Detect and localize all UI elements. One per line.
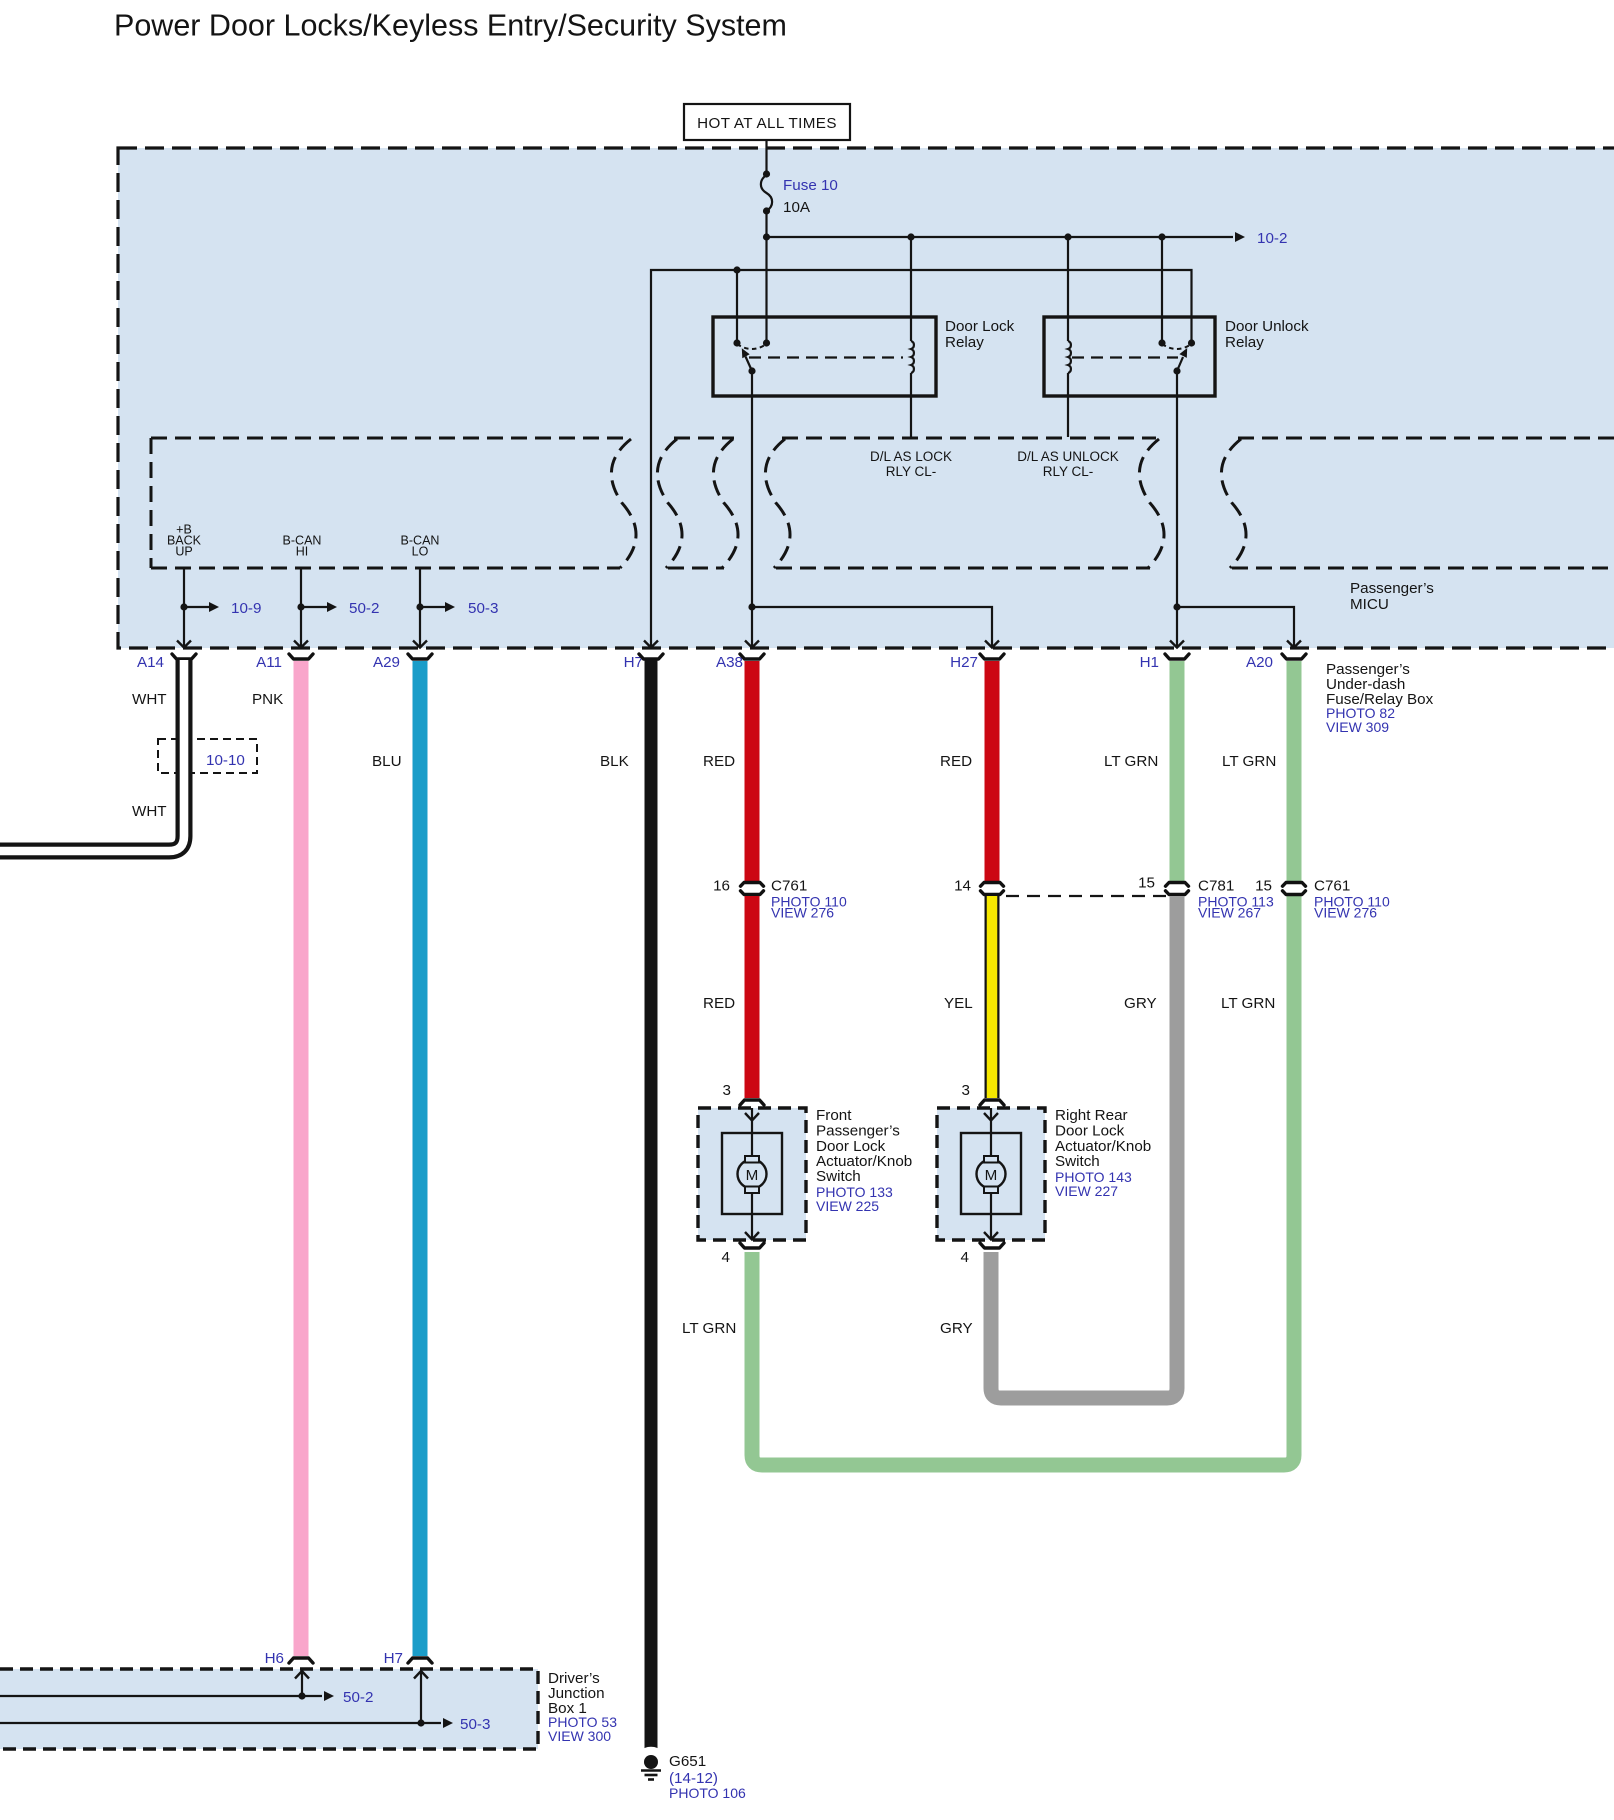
MICU inner connector box segment B (break) bbox=[657, 438, 738, 568]
node H1 branch bbox=[1173, 603, 1180, 610]
svg-text:RED: RED bbox=[703, 753, 735, 770]
svg-text:HOT AT ALL TIMES: HOT AT ALL TIMES bbox=[697, 115, 837, 132]
Passenger's MICU label bbox=[1350, 580, 1434, 613]
node unlock coil feed bbox=[1064, 233, 1071, 240]
label right rear actuator bbox=[1055, 1107, 1151, 1199]
wire RED from A38 to C761 bbox=[745, 661, 760, 881]
wire LT GRN from H1 to C781 bbox=[1170, 661, 1185, 881]
MICU inner connector box segment D bbox=[1221, 438, 1614, 568]
wire 50-2 inside junction box bbox=[0, 1671, 373, 1706]
label driver's junction box bbox=[548, 1670, 617, 1744]
pin B-CAN LO bbox=[401, 534, 440, 559]
unlock relay blade bbox=[1173, 348, 1187, 375]
svg-text:50-2: 50-2 bbox=[343, 1689, 373, 1706]
svg-text:Relay: Relay bbox=[1225, 334, 1264, 351]
wire LT GRN from A20 to front actuator pin 4 bbox=[1287, 661, 1302, 881]
wire PNK from A11 to H6 bbox=[294, 661, 309, 1656]
connector pin H27 bbox=[950, 654, 1004, 671]
wire feed to lock relay right contact bbox=[765, 237, 767, 343]
svg-text:Door Unlock: Door Unlock bbox=[1225, 318, 1309, 335]
wire WHT from A14 bbox=[0, 660, 184, 851]
svg-text:Switch: Switch bbox=[816, 1168, 861, 1185]
dashed link C761-14 to C781-15 bbox=[1006, 895, 1167, 897]
svg-text:15: 15 bbox=[1138, 875, 1155, 892]
connector pin A11 bbox=[256, 654, 313, 671]
wire B-CAN HI to A11 bbox=[300, 568, 302, 646]
wire common bus y270 from H7 bbox=[651, 270, 1192, 646]
connector C761 pin 16 bbox=[713, 878, 847, 921]
wire bus to 10-2 bbox=[767, 232, 1246, 242]
svg-text:M: M bbox=[746, 1167, 759, 1184]
node 50-3 branch bbox=[416, 603, 423, 610]
svg-text:H1: H1 bbox=[1140, 654, 1159, 671]
node A38 branch bbox=[748, 603, 755, 610]
svg-text:Power Door Locks/Keyless Entry: Power Door Locks/Keyless Entry/Security … bbox=[114, 9, 787, 43]
node 10-9 branch bbox=[180, 603, 187, 610]
svg-text:Passenger’s: Passenger’s bbox=[816, 1123, 900, 1140]
node lock contact feed bbox=[733, 266, 740, 273]
svg-text:4: 4 bbox=[722, 1249, 730, 1266]
svg-text:Right Rear: Right Rear bbox=[1055, 1107, 1128, 1124]
svg-text:Door Lock: Door Lock bbox=[945, 318, 1015, 335]
svg-text:D/L AS LOCK: D/L AS LOCK bbox=[870, 449, 952, 464]
svg-text:C761: C761 bbox=[771, 878, 807, 895]
svg-text:10-2: 10-2 bbox=[1257, 230, 1287, 247]
svg-text:Fuse 10: Fuse 10 bbox=[783, 177, 838, 194]
svg-text:LT GRN: LT GRN bbox=[1222, 753, 1276, 770]
svg-text:Switch: Switch bbox=[1055, 1153, 1100, 1170]
svg-text:RLY CL-: RLY CL- bbox=[1043, 464, 1094, 479]
wire RED C761 to front actuator pin 3 bbox=[745, 896, 760, 1098]
svg-text:LT GRN: LT GRN bbox=[1221, 995, 1275, 1012]
wire feed to lock relay left contact bbox=[736, 270, 738, 343]
right rear door lock actuator bbox=[937, 1108, 1045, 1240]
pin 4 right rear actuator bbox=[961, 1243, 1004, 1266]
svg-text:GRY: GRY bbox=[940, 1320, 973, 1337]
relay Door Unlock Relay bbox=[1044, 317, 1309, 396]
connector pin H1 bbox=[1140, 654, 1189, 671]
svg-text:M: M bbox=[985, 1167, 998, 1184]
connector C781 pin 15 bbox=[1138, 875, 1274, 921]
front passenger's door lock actuator bbox=[698, 1108, 806, 1240]
svg-text:MICU: MICU bbox=[1350, 596, 1389, 613]
svg-text:4: 4 bbox=[961, 1249, 969, 1266]
wire branch to A20 bbox=[1177, 607, 1294, 646]
svg-text:G651: G651 bbox=[669, 1753, 706, 1770]
svg-text:UP: UP bbox=[175, 545, 192, 559]
svg-text:Relay: Relay bbox=[945, 334, 984, 351]
arrow to 50-2 bbox=[301, 600, 379, 617]
MICU inner connector box segment C bbox=[765, 438, 1164, 568]
wire unlock relay output to H1 bbox=[1176, 371, 1178, 646]
svg-text:VIEW 300: VIEW 300 bbox=[548, 1728, 611, 1744]
svg-text:A29: A29 bbox=[373, 654, 400, 671]
connector pin A20 bbox=[1246, 654, 1306, 671]
wire BLU from A29 to H7 bbox=[413, 661, 428, 1656]
wire branch to H27 bbox=[752, 607, 992, 646]
svg-text:H7: H7 bbox=[384, 1650, 403, 1667]
svg-text:50-3: 50-3 bbox=[468, 600, 498, 617]
svg-text:C761: C761 bbox=[1314, 878, 1350, 895]
pin D/L AS LOCK RLY CL- bbox=[870, 449, 952, 479]
svg-text:14: 14 bbox=[954, 878, 971, 895]
svg-text:GRY: GRY bbox=[1124, 995, 1157, 1012]
lock relay link (dashed) bbox=[749, 356, 903, 358]
arrowheads at MICU bottom edge bbox=[177, 641, 1301, 648]
svg-text:10-9: 10-9 bbox=[231, 600, 261, 617]
connector pin A29 bbox=[373, 654, 432, 671]
driver's junction box 1 bbox=[0, 1669, 538, 1749]
svg-text:VIEW 227: VIEW 227 bbox=[1055, 1183, 1118, 1199]
connector C761 pin 15 (A20) bbox=[1255, 878, 1390, 921]
arrow to 50-3 bbox=[420, 600, 498, 617]
pin B-CAN HI bbox=[283, 534, 322, 559]
connector pin A38 bbox=[716, 654, 764, 671]
svg-text:A38: A38 bbox=[716, 654, 743, 671]
svg-text:10A: 10A bbox=[783, 199, 811, 216]
svg-text:WHT: WHT bbox=[132, 803, 167, 820]
svg-text:VIEW 309: VIEW 309 bbox=[1326, 719, 1389, 735]
wire lock relay output to A38 bbox=[751, 371, 753, 646]
connector pin A14 bbox=[137, 654, 196, 671]
lock relay blade bbox=[742, 348, 756, 374]
wire feed to unlock relay left contact bbox=[1161, 237, 1163, 343]
svg-text:3: 3 bbox=[962, 1082, 970, 1099]
svg-text:A20: A20 bbox=[1246, 654, 1273, 671]
node lock coil feed bbox=[907, 233, 914, 240]
svg-text:YEL: YEL bbox=[944, 995, 973, 1012]
Passenger's MICU box bbox=[118, 148, 1614, 648]
svg-text:VIEW 267: VIEW 267 bbox=[1198, 905, 1261, 921]
svg-text:PNK: PNK bbox=[252, 691, 283, 708]
pin +B BACK UP bbox=[167, 523, 202, 559]
node unlock contact feed bbox=[1158, 233, 1165, 240]
svg-text:Front: Front bbox=[816, 1107, 852, 1124]
label front actuator bbox=[816, 1107, 912, 1214]
svg-text:BLU: BLU bbox=[372, 753, 402, 770]
wire BLK from H7 to G651 bbox=[645, 660, 658, 1750]
HOT AT ALL TIMES label bbox=[684, 104, 850, 140]
wire 50-3 inside junction box bbox=[0, 1671, 490, 1733]
pin D/L AS UNLOCK RLY CL- bbox=[1017, 449, 1119, 479]
unlock relay link (dashed) bbox=[1072, 356, 1178, 358]
svg-text:Door Lock: Door Lock bbox=[1055, 1123, 1125, 1140]
svg-text:50-3: 50-3 bbox=[460, 1716, 490, 1733]
svg-text:D/L AS UNLOCK: D/L AS UNLOCK bbox=[1017, 449, 1119, 464]
svg-text:10-10: 10-10 bbox=[206, 752, 245, 769]
svg-text:VIEW 225: VIEW 225 bbox=[816, 1198, 879, 1214]
ground G651 bbox=[641, 1747, 746, 1801]
node fuse output bbox=[763, 233, 770, 240]
pin 4 front actuator bbox=[722, 1243, 764, 1266]
wire YEL C761 to right rear actuator pin 3 bbox=[985, 896, 1000, 1098]
connector C761 pin 14 bbox=[954, 878, 1003, 895]
svg-text:3: 3 bbox=[723, 1082, 731, 1099]
connector pin H7 (junction box) bbox=[384, 1650, 432, 1667]
MICU inner connector box segment A bbox=[151, 438, 636, 568]
svg-text:LO: LO bbox=[412, 545, 429, 559]
svg-text:16: 16 bbox=[713, 878, 730, 895]
wire RED from H27 to C761 bbox=[985, 661, 1000, 881]
unlock relay contacts bbox=[1158, 339, 1195, 349]
svg-text:VIEW 276: VIEW 276 bbox=[771, 905, 834, 921]
wire GRY C781 to right rear actuator pin 4 bbox=[991, 896, 1177, 1398]
svg-text:50-2: 50-2 bbox=[349, 600, 379, 617]
unlock relay coil bbox=[1068, 237, 1071, 437]
wire +B BACK UP to A14 bbox=[183, 568, 185, 646]
label Passenger's Under-dash Fuse/Relay Box bbox=[1326, 661, 1434, 735]
pin 3 front actuator bbox=[723, 1082, 764, 1105]
svg-text:H27: H27 bbox=[950, 654, 978, 671]
fuse Fuse 10 10A bbox=[761, 170, 838, 237]
svg-text:15: 15 bbox=[1255, 878, 1272, 895]
svg-text:RED: RED bbox=[940, 753, 972, 770]
svg-text:A11: A11 bbox=[256, 654, 282, 671]
svg-text:C781: C781 bbox=[1198, 878, 1234, 895]
wire from HOT AT ALL TIMES to fuse bbox=[765, 140, 767, 176]
arrow to 10-9 bbox=[184, 600, 261, 617]
svg-text:LT GRN: LT GRN bbox=[682, 1320, 736, 1337]
relay Door Lock Relay bbox=[713, 317, 1015, 396]
wire B-CAN LO to A29 bbox=[419, 568, 421, 646]
svg-text:BLK: BLK bbox=[600, 753, 629, 770]
svg-text:HI: HI bbox=[296, 545, 309, 559]
connector pin H6 (junction box) bbox=[265, 1650, 313, 1667]
svg-text:WHT: WHT bbox=[132, 691, 167, 708]
node 50-2 branch bbox=[297, 603, 304, 610]
pin 3 right rear actuator bbox=[962, 1082, 1004, 1105]
svg-text:PHOTO 106: PHOTO 106 bbox=[669, 1785, 746, 1801]
connector pin H7 bbox=[624, 654, 663, 671]
svg-text:H6: H6 bbox=[265, 1650, 284, 1667]
svg-text:RED: RED bbox=[703, 995, 735, 1012]
svg-text:RLY CL-: RLY CL- bbox=[886, 464, 937, 479]
lock relay contacts bbox=[733, 339, 770, 349]
svg-text:A14: A14 bbox=[137, 654, 164, 671]
svg-text:VIEW 276: VIEW 276 bbox=[1314, 905, 1377, 921]
svg-text:LT GRN: LT GRN bbox=[1104, 753, 1158, 770]
connector box 10-10 bbox=[158, 739, 257, 773]
lock relay coil bbox=[911, 237, 914, 437]
svg-text:Passenger’s: Passenger’s bbox=[1350, 580, 1434, 597]
